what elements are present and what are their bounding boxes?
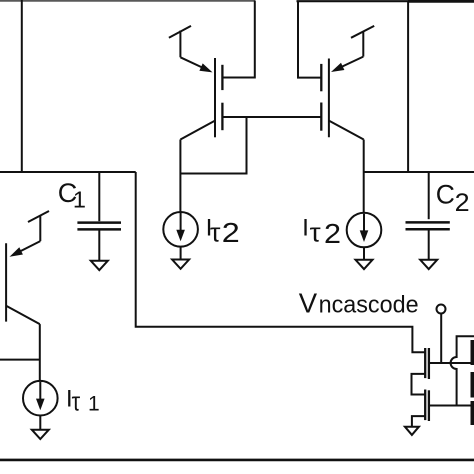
wire: horizontal stub to left edge (0, 359, 40, 361)
svg-text:2: 2 (222, 217, 240, 248)
terminal Vncascode (437, 305, 446, 364)
svg-text:1: 1 (73, 187, 86, 213)
wire: drain lead of M1 to rail (222, 1, 254, 78)
svg-text:2: 2 (455, 189, 470, 217)
wire: vertical to left tail current source (179, 140, 181, 213)
wire: left output node horizontal (0, 171, 136, 173)
label I_tau1 (66, 385, 100, 416)
svg-text:ncascode: ncascode (319, 292, 419, 319)
svg-text:I: I (302, 215, 309, 242)
svg-text:V: V (299, 288, 318, 319)
wire: left output down and across to cascode drain (136, 172, 426, 352)
ground (I_tau1) (32, 430, 49, 439)
Vdd rail (right segment) (297, 0, 474, 2)
svg-text:1: 1 (88, 392, 100, 415)
transistor M2 (lower left of centre pair) channel bar (221, 103, 223, 131)
transistor M6 channel bar (428, 390, 430, 421)
label C1 (58, 178, 86, 213)
wire: drain lead of M3 to rail (298, 1, 321, 77)
label I_tau2 (right) (302, 215, 341, 250)
wire: mirror gate bus (429, 405, 474, 407)
wire: U link between M5 and M6 (412, 374, 426, 395)
wire: mirror diode link with hop over gate bus (451, 336, 474, 405)
bottom frame line (0, 459, 474, 462)
label I_tau2 (left) (206, 214, 240, 248)
transistor M7 (right edge, clipped) bars (471, 340, 474, 425)
svg-text:τ: τ (72, 388, 81, 416)
label C2 (436, 180, 470, 218)
svg-text:C: C (436, 180, 455, 210)
transistor M3 (upper right cascode) channel bar (320, 64, 322, 91)
transistor M6 (mirror) gate bar (424, 390, 426, 421)
ground (M6 source) (405, 427, 419, 435)
svg-text:τ: τ (310, 219, 321, 247)
wire: left branch vertical from rail (21, 0, 23, 172)
transistor Q1 (left edge, clipped) gate line (5, 243, 7, 321)
wire: M6 source lead to ground (412, 416, 425, 427)
transistor M4 (lower right of centre pair) channel bar (320, 103, 322, 131)
ground (left I_tau2) (172, 260, 189, 269)
input arrow with tick into gate of Q1 (10, 211, 50, 257)
transistor M5 (cascode) gate bar (424, 348, 426, 378)
transistor M1/M2 shared gate line (214, 58, 216, 137)
wire: source diagonal of M2 (180, 121, 215, 140)
svg-text:τ: τ (210, 219, 220, 247)
wire: right output node horizontal (364, 171, 474, 173)
capacitor C1 (77, 172, 121, 261)
input arrow with tick into gate of M1 (169, 26, 213, 73)
current source I_tau2 (right) (347, 213, 382, 260)
Vdd rail (left segment, clipped at top) (0, 0, 255, 2)
current source I_tau1 (23, 381, 58, 430)
wire: Q1 source down to I_tau1 (39, 324, 41, 381)
wire: cascode gate bus (Vncascode) (429, 362, 471, 364)
transistor M1 (upper left cascode) channel bar (221, 65, 223, 90)
transistor M5 channel bar (428, 348, 430, 379)
current source I_tau2 (left) (163, 212, 198, 260)
label Vncascode (299, 288, 419, 319)
capacitor C2 (406, 172, 450, 260)
svg-text:2: 2 (324, 218, 341, 249)
wire: junction branch connecting mid wire to tail node (180, 117, 246, 174)
input arrow with tick into gate of M3 (331, 26, 374, 72)
wire: source diagonal of Q1 (6, 306, 40, 324)
wire: common source mid wire between pairs (222, 116, 321, 118)
transistor M3/M4 shared gate line (328, 59, 330, 138)
wire: right branch vertical to rail (407, 1, 409, 172)
wire: vertical to right tail current source (363, 140, 365, 213)
ground (C1) (91, 261, 108, 270)
ground (right I_tau2) (356, 260, 373, 269)
ground (C2) (420, 260, 437, 269)
wire: source diagonal of M4 (329, 121, 364, 140)
